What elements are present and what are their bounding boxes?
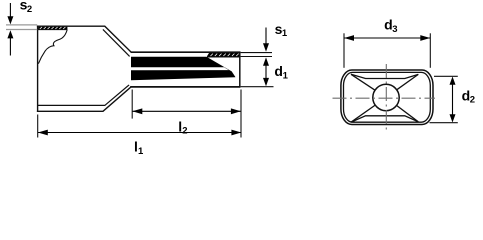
svg-text:1: 1 <box>138 146 144 157</box>
wire: tube bottom edge <box>130 86 240 88</box>
dimension s1 arrow <box>265 28 267 45</box>
wire: tube top edge <box>131 51 241 53</box>
dimension s2 lower arrow <box>9 38 11 56</box>
funnel bottom silhouette <box>351 116 418 122</box>
svg-text:3: 3 <box>392 24 397 35</box>
tube bore circle <box>373 84 399 110</box>
vertical centerline <box>385 64 387 131</box>
dimension l2 line with arrows <box>133 110 241 112</box>
tube highlight stripe <box>131 67 229 70</box>
break line of broken-out section <box>38 30 67 64</box>
wire: collar top inner edge (broken-out section) <box>38 29 68 31</box>
svg-text:1: 1 <box>282 28 288 39</box>
wire: collar bottom inner edge and taper <box>38 85 130 106</box>
dimension s2 extension lines <box>6 24 37 26</box>
dimension l1 line with arrows <box>38 132 241 134</box>
svg-text:2: 2 <box>27 4 32 15</box>
dimension s1 extension lines <box>241 52 272 54</box>
dimension d1 double arrow <box>265 62 267 82</box>
wire: collar left end face <box>37 26 39 112</box>
dimension d3 extension lines <box>343 33 345 68</box>
dimension d1 bottom extension line <box>241 86 274 88</box>
svg-text:2: 2 <box>470 95 475 106</box>
funnel cone edge top-right <box>397 74 419 89</box>
wire: collar bottom outer edge and taper <box>37 87 131 111</box>
dimension d2 extension lines <box>434 75 458 77</box>
tube dark shading <box>131 57 235 81</box>
horizontal centerline <box>333 97 436 99</box>
wire: collar top outer edge and taper <box>37 26 132 52</box>
end view outer sleeve contour <box>341 70 433 125</box>
svg-text:2: 2 <box>182 126 187 137</box>
svg-text:1: 1 <box>283 70 289 81</box>
wire: tube wall inner line at right end <box>207 56 240 58</box>
funnel top silhouette <box>351 74 418 78</box>
hatching: tube wall section s1 <box>207 53 240 57</box>
wire: tube right end face <box>239 52 241 88</box>
funnel cone edge bottom-right <box>397 105 419 121</box>
dimension l1 extension line <box>37 115 39 138</box>
funnel cone edge bottom-left <box>351 105 375 122</box>
wire: collar taper inner line top <box>103 29 130 56</box>
hatching: collar wall section s2 <box>38 27 67 29</box>
funnel cone edge top-left <box>351 74 375 90</box>
dimension l2 extension lines <box>131 90 133 119</box>
end view inner sleeve contour <box>344 72 431 122</box>
dimension s2 upper arrow <box>9 3 11 18</box>
dimension d2 double arrow <box>452 79 454 120</box>
dimension d3 line with arrows <box>344 37 430 39</box>
